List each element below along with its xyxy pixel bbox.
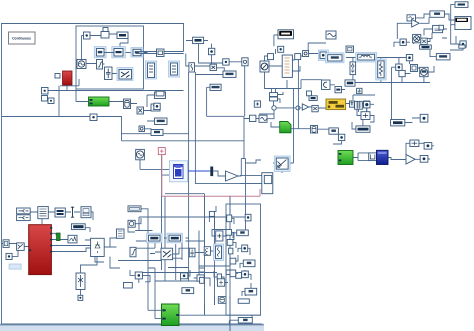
block [350,101,355,107]
small blocks [57,233,61,241]
long vertical wire [188,72,190,281]
PWM generator block [274,156,290,172]
node circle [303,51,309,57]
sum pair blocks [307,91,312,96]
AC source block [260,61,269,72]
mux arrows block selected [117,68,133,81]
capacitor block [189,248,195,257]
label scope1 [210,84,221,90]
demux block [186,54,223,75]
block [68,235,77,243]
node circle [364,101,370,107]
block [250,115,256,121]
striped display [356,126,370,132]
wire [394,14,463,64]
green machine block [89,97,110,106]
block [406,55,412,61]
bar block [335,87,342,93]
wire green [148,268,261,331]
tick block [71,207,74,218]
block [226,230,232,236]
label cos [193,37,204,43]
wire [118,196,246,286]
-K- gain [391,120,405,126]
label [238,318,252,324]
label scope5 [238,299,249,303]
block [459,45,465,48]
label Vdc [430,11,445,17]
block [361,112,370,120]
wire [2,86,189,141]
goto block [124,99,131,109]
block [181,273,188,279]
vertical block selected [169,61,180,77]
bright battery wire [187,159,246,197]
svg-text:Continuous: Continuous [12,37,31,41]
block [103,28,108,32]
big red machine block [29,225,52,275]
display block [117,32,128,39]
goto tag [311,126,318,134]
current tick [210,167,213,177]
wire [42,79,184,101]
saturation vertical [130,247,136,256]
block [407,15,416,21]
block [81,207,91,218]
bridge 2 [76,273,85,290]
label Vab [455,2,468,8]
block [230,258,236,264]
U block [369,153,377,161]
block [460,41,466,47]
label 1.5mH selected [326,53,345,63]
block [439,25,444,30]
constant block [17,215,31,221]
wire from circle [140,155,230,331]
block [268,54,274,60]
wire [244,92,326,119]
bus selector [38,207,49,219]
constant block [17,208,31,214]
C block [322,80,331,90]
block grid [355,101,363,109]
terminator [78,295,83,300]
block [245,214,251,221]
wire [82,34,148,74]
block [227,240,233,246]
mid-top labels right of border [186,41,245,117]
source circle [77,60,86,69]
block [3,240,9,248]
block right [117,229,125,238]
Gd block selected [131,48,143,58]
block selected [112,47,126,58]
block [420,45,432,49]
wire [451,5,460,44]
mux pair [270,93,278,97]
circle block [364,101,370,108]
selected block b [167,233,183,243]
PLL circle [420,67,428,76]
blue block [377,150,389,164]
block [254,101,260,107]
block [420,156,428,163]
display label [72,224,86,230]
block [411,65,418,72]
integrator block selected [214,244,224,261]
capacitor block [105,67,113,80]
selected block a [147,233,163,243]
label [329,128,339,134]
label [243,260,255,267]
block [338,134,344,140]
bottom window band [0,324,264,326]
goto [218,297,226,304]
block on bus [157,49,165,57]
block top [226,270,232,274]
block [396,64,402,70]
block [229,248,233,254]
converter block [262,173,273,194]
sine block [259,115,267,122]
green PV block [338,151,353,165]
dot block [223,59,229,65]
block [420,114,428,122]
node [272,106,276,110]
gain display [345,80,355,86]
label discrete [128,206,141,212]
striped display [55,208,65,217]
inductor selected [356,53,377,63]
top-left subsystem box [76,26,144,89]
wire [352,67,420,129]
block [424,143,432,150]
selected source area [318,50,328,61]
gain triangle [302,104,308,110]
sum block [128,220,135,227]
block [210,64,216,70]
label [237,230,249,236]
block [295,54,301,60]
label rpm [155,92,166,99]
block [278,46,284,52]
wire [122,87,245,315]
S block [204,247,210,256]
saturation block [97,60,103,70]
block [242,58,248,66]
block [326,31,336,39]
wire [308,43,434,112]
sine source circle [136,149,145,159]
block [410,140,419,147]
bus wire double [104,52,184,54]
block [139,126,145,132]
input blocks [42,88,49,95]
outer model border [2,24,263,325]
block [209,48,215,54]
label out1b [223,71,236,77]
wire [265,35,431,93]
red converter block [63,71,73,85]
block [399,70,405,76]
dot block [200,277,205,283]
pink port block [158,148,165,155]
dot blocks row [135,272,142,279]
RLC branch vertical [350,62,356,75]
block [242,245,248,252]
transformer block [282,55,292,77]
block [137,107,144,114]
yellow battery block [326,99,346,110]
block [154,103,160,109]
gain block [84,32,91,39]
label out [151,130,163,136]
label [245,288,257,295]
long vertical wire [195,72,261,184]
scope block [346,46,354,52]
wire [139,217,245,231]
node small [296,106,300,110]
block [433,25,443,32]
ground [357,88,362,93]
PI block selected [94,47,106,58]
wire [240,160,282,184]
vertical block selected [146,61,157,79]
powergui block [9,32,36,44]
block [6,253,12,259]
wire [353,143,434,160]
pink wire [162,155,260,197]
wire [271,59,342,163]
display block [455,17,471,30]
plus block [216,231,223,241]
block [230,270,236,277]
label out [124,283,133,289]
block [421,38,427,44]
block [242,271,249,278]
empty selection [9,264,21,269]
resistor vertical selected [376,59,386,80]
gain triangle [406,155,415,165]
gain triangle [226,171,239,181]
battery selected [169,161,187,182]
product circle [413,34,421,42]
port block [55,74,60,79]
block [400,39,406,45]
green inverter block [162,304,180,326]
dot block [90,114,97,121]
block [312,105,318,111]
wire [2,211,120,295]
block [209,211,214,216]
block [217,279,224,286]
label [156,91,164,96]
diode bridge [91,238,105,256]
label gain1 [182,288,194,294]
block [151,104,160,111]
label torque [155,118,168,125]
block [227,215,232,222]
mux arrows block [161,248,173,260]
gain triangle [412,20,420,28]
black display [278,30,294,39]
wire [232,218,251,296]
label Iabc [436,54,450,60]
green note block [280,122,291,133]
switch block [17,243,25,251]
